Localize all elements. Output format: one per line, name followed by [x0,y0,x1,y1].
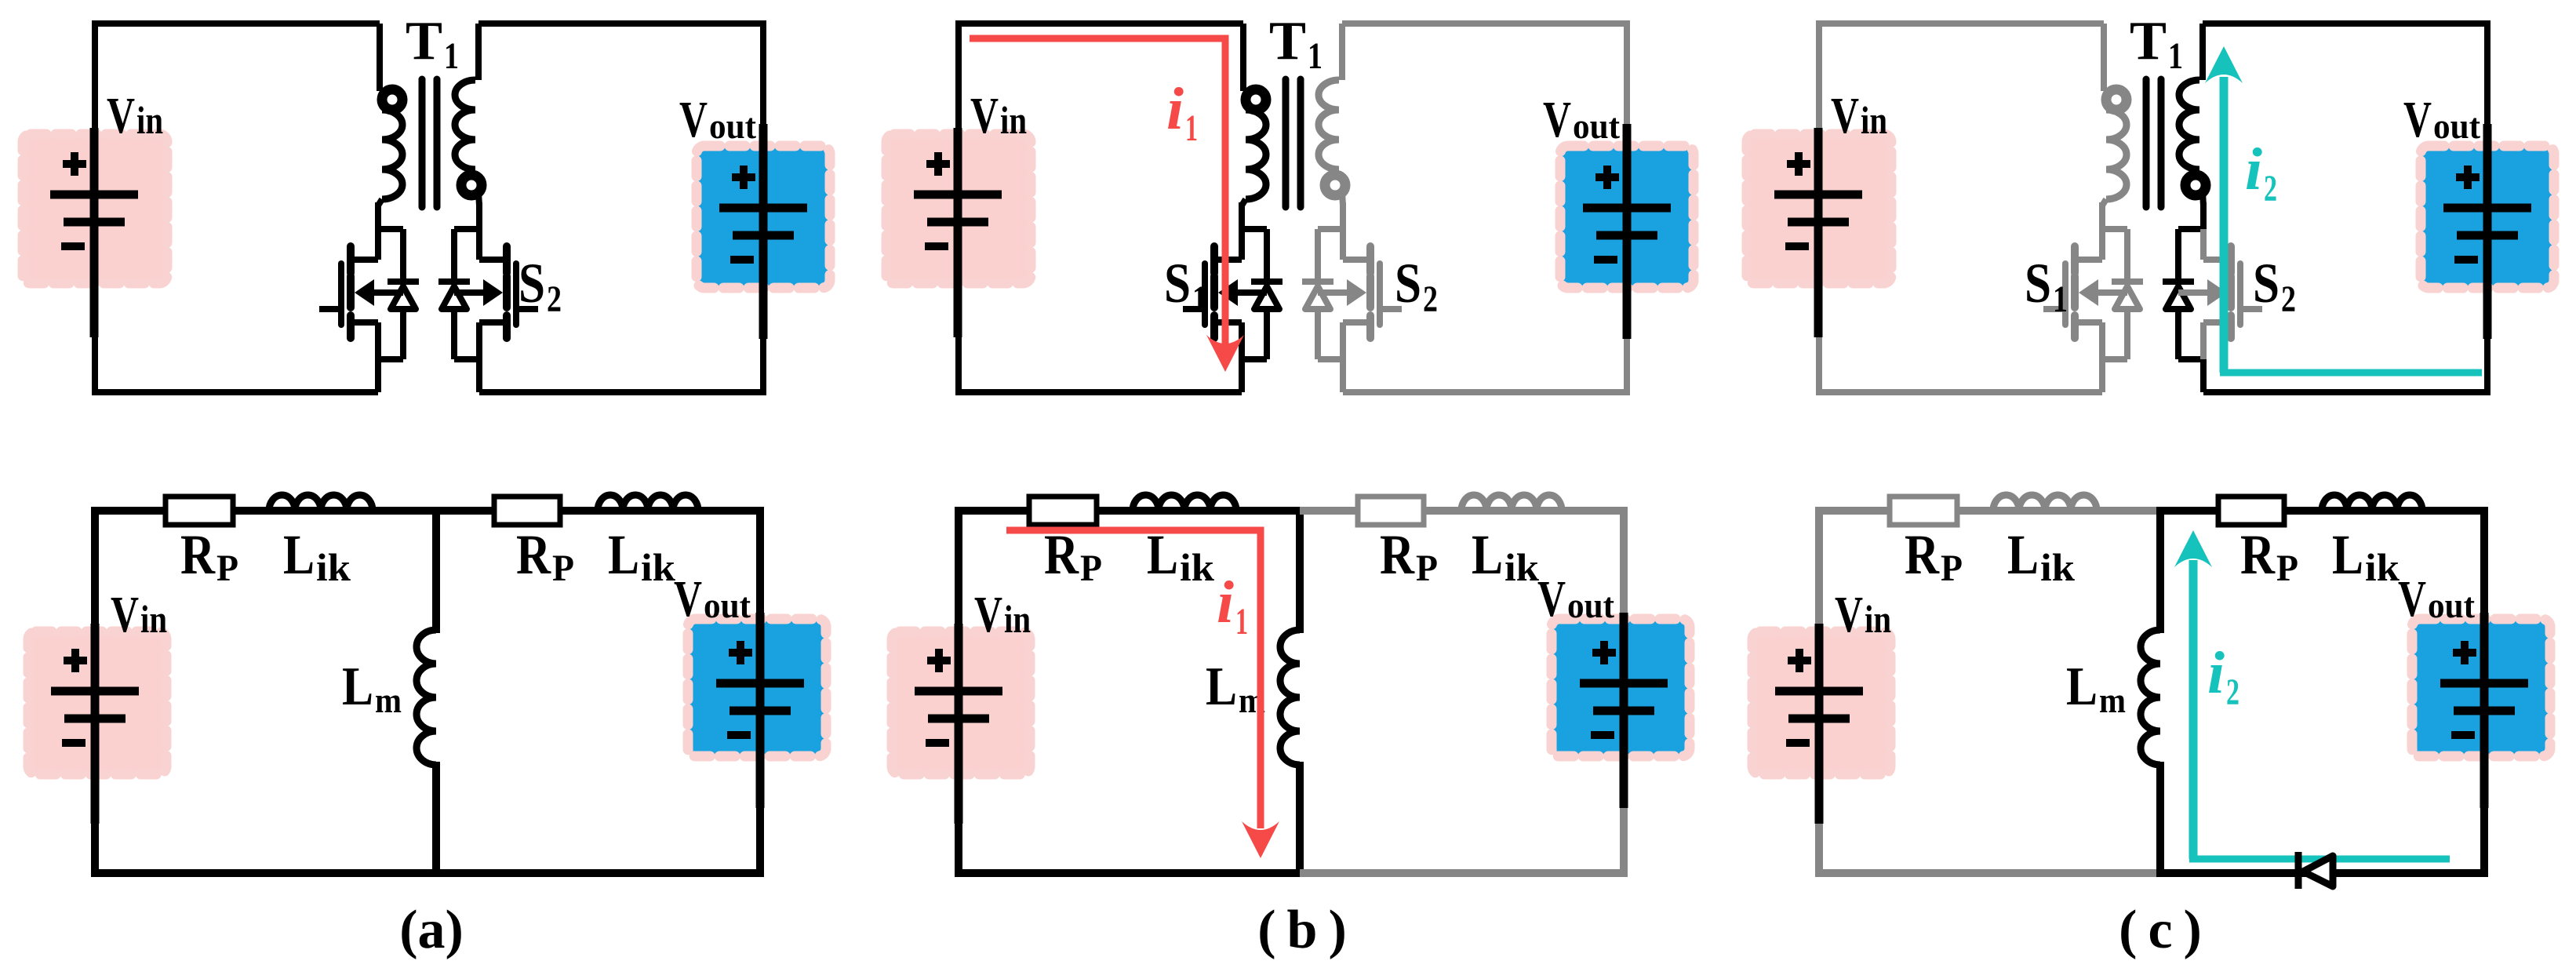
svg-text:1: 1 [2053,278,2068,320]
svg-text:2: 2 [547,278,562,320]
svg-text:R: R [1905,523,1940,586]
svg-text:1: 1 [444,35,459,77]
svg-text:P: P [2276,548,2298,589]
svg-text:1: 1 [1185,107,1198,149]
svg-text:V: V [1537,570,1566,628]
svg-text:ik: ik [316,545,351,589]
svg-text:1: 1 [1308,35,1323,77]
svg-text:1: 1 [1235,601,1248,642]
svg-text:ik: ik [1180,545,1214,589]
svg-text:ik: ik [1504,545,1539,589]
svg-text:P: P [216,548,238,589]
svg-text:out: out [704,585,751,625]
svg-text:S: S [2025,252,2051,315]
svg-text:i: i [1166,76,1184,142]
svg-text:T: T [1269,11,1306,71]
svg-text:V: V [1835,586,1863,643]
svg-text:L: L [2066,657,2098,717]
svg-text:1: 1 [1192,278,1207,320]
svg-text:L: L [1206,657,1237,717]
svg-text:S: S [2253,252,2279,315]
svg-text:out: out [2428,585,2476,625]
svg-text:R: R [180,523,216,586]
svg-text:( c ): ( c ) [2119,900,2202,960]
svg-text:2: 2 [2264,168,2277,209]
svg-text:in: in [1861,98,1887,142]
svg-text:L: L [342,657,373,717]
svg-text:in: in [140,597,167,641]
svg-text:T: T [406,11,442,71]
svg-text:i: i [2207,640,2225,706]
svg-text:i: i [1217,570,1234,635]
svg-text:ik: ik [2040,545,2075,589]
svg-text:V: V [111,586,139,643]
svg-text:out: out [2433,106,2481,146]
svg-text:R: R [1380,523,1415,586]
svg-text:(a): (a) [399,900,464,960]
svg-text:L: L [2007,523,2039,586]
svg-text:L: L [283,523,315,586]
svg-text:2: 2 [2226,671,2239,713]
svg-text:m: m [2099,680,2126,720]
svg-text:2: 2 [2281,278,2296,320]
svg-text:V: V [674,570,702,628]
svg-text:S: S [1164,252,1191,315]
svg-text:V: V [974,586,1002,643]
svg-text:L: L [2332,523,2363,586]
svg-text:L: L [1472,523,1503,586]
svg-text:ik: ik [2365,545,2400,589]
svg-text:R: R [516,523,551,586]
svg-text:V: V [107,87,135,144]
svg-text:i: i [2245,136,2262,202]
svg-text:V: V [1831,87,1859,144]
svg-text:( b ): ( b ) [1257,900,1347,960]
svg-text:V: V [679,91,708,148]
svg-text:S: S [1395,252,1421,315]
svg-text:in: in [1004,597,1031,641]
svg-text:P: P [1080,548,1102,589]
svg-text:R: R [2240,523,2276,586]
svg-text:in: in [1000,98,1027,142]
svg-text:P: P [552,548,574,589]
svg-text:m: m [375,680,402,720]
svg-text:in: in [136,98,163,142]
svg-text:T: T [2130,11,2167,71]
svg-text:L: L [608,523,639,586]
svg-text:V: V [970,87,999,144]
svg-text:out: out [1567,585,1615,625]
svg-text:in: in [1865,597,1891,641]
svg-text:P: P [1941,548,1963,589]
svg-text:S: S [518,252,545,315]
svg-text:V: V [2398,570,2426,628]
svg-text:V: V [2403,91,2432,148]
svg-text:2: 2 [1423,278,1438,320]
svg-text:P: P [1416,548,1438,589]
svg-text:out: out [1573,106,1621,146]
svg-text:V: V [1543,91,1571,148]
svg-text:ik: ik [641,545,675,589]
svg-text:1: 1 [2168,35,2183,77]
svg-text:out: out [709,106,757,146]
